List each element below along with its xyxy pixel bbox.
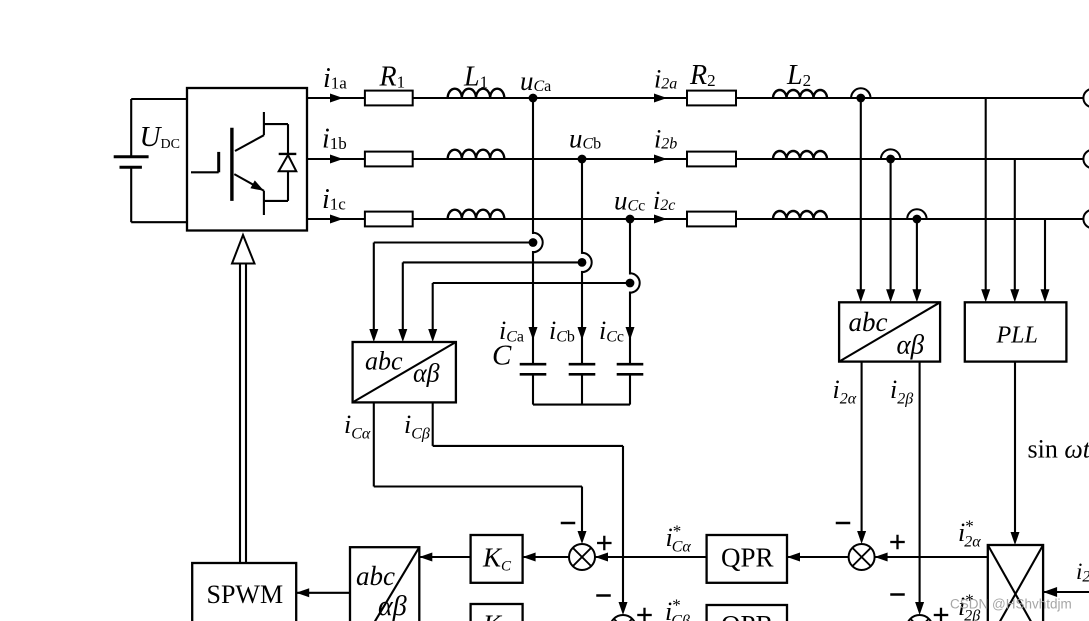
- svg-text:abc: abc: [849, 307, 888, 337]
- svg-text:sin ωt: sin ωt: [1028, 435, 1089, 464]
- svg-text:αβ: αβ: [378, 591, 407, 621]
- svg-text:αβ: αβ: [897, 330, 925, 360]
- svg-text:abc: abc: [365, 347, 403, 376]
- svg-text:QPR: QPR: [721, 610, 774, 621]
- svg-text:PLL: PLL: [996, 323, 1038, 349]
- svg-text:C: C: [492, 340, 512, 372]
- svg-text:QPR: QPR: [721, 543, 774, 573]
- svg-text:abc: abc: [356, 561, 395, 591]
- svg-text:αβ: αβ: [413, 359, 440, 388]
- svg-text:CSDN @HShvhtdjm: CSDN @HShvhtdjm: [950, 597, 1072, 612]
- svg-text:SPWM: SPWM: [207, 580, 284, 609]
